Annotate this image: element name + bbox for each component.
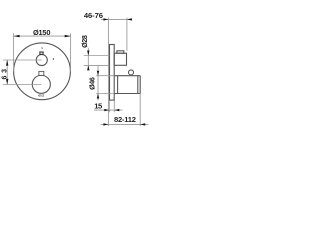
svg-text:6: 6 [1, 76, 8, 80]
front view: escutcheon plate circle Ø150 [14, 43, 71, 100]
63 bottom arrow [6, 79, 8, 85]
dimension 63 line [6, 60, 8, 85]
dimension 46-76 line [101, 18, 132, 20]
side view: lower knob bottom edge [114, 93, 140, 95]
Ø46 bottom arrow [97, 94, 99, 99]
15 right arrow [114, 109, 119, 111]
dimension Ø46 line [97, 66, 99, 101]
finished wall line [107, 18, 109, 127]
svg-text:46-76: 46-76 [84, 11, 103, 20]
svg-text:KEUCO: KEUCO [38, 94, 44, 98]
15 right extension (plate front) [113, 101, 115, 113]
dimension Ø28 line [87, 48, 89, 71]
46-76 right extension (upper knob front) [126, 18, 128, 51]
upper knob (diverter) circle [36, 55, 47, 66]
Ø150 right arrow [65, 35, 71, 37]
svg-text:Ø46: Ø46 [88, 77, 97, 90]
Ø150 left tick + extension line [13, 33, 15, 71]
svg-text:2: 2 [53, 57, 55, 61]
82-112 right extension (knob front) [139, 94, 141, 127]
side view: lower knob top edge [114, 75, 140, 77]
Ø46 bottom tick [96, 93, 114, 95]
Ø28 bottom arrow [87, 65, 89, 70]
Ø46 top arrow [97, 71, 99, 76]
63 top arrow [6, 60, 8, 66]
Ø46 top tick [96, 75, 114, 77]
Ø28 top arrow [87, 51, 89, 56]
side view: lower knob front face [139, 76, 141, 94]
63 extension to lower knob centre [3, 84, 41, 86]
46-76 left arrow [103, 18, 108, 20]
Ø150 right tick + extension line [70, 33, 72, 71]
lower knob grip tab [39, 71, 44, 75]
46-76 right arrow [127, 18, 132, 20]
side view: upper knob body [114, 53, 126, 65]
dimension 82-112 line [101, 123, 149, 125]
svg-text:3: 3 [1, 69, 8, 73]
svg-text:Ø150: Ø150 [33, 28, 50, 37]
svg-text:Ø28: Ø28 [80, 35, 89, 48]
side view: lower knob base ring [117, 76, 119, 94]
Ø28 top tick [84, 55, 110, 57]
Ø150 left arrow [14, 35, 20, 37]
upper knob grip tab [40, 52, 43, 54]
side view: lower knob safety button [129, 70, 134, 75]
svg-text:1: 1 [41, 46, 43, 50]
dimension Ø150 line [14, 35, 71, 37]
side view: upper knob cap (grip tab) [117, 51, 124, 53]
svg-text:82-112: 82-112 [114, 115, 136, 124]
15 left arrow [104, 109, 109, 111]
side view: lower knob front inner ring [137, 76, 139, 94]
lower knob (thermostat) circle [32, 75, 50, 93]
Ø28 bottom tick [84, 64, 110, 66]
82-112 right arrow [140, 123, 145, 125]
15 left extension (plate back) [108, 101, 110, 113]
dimension 15 line [94, 109, 123, 111]
svg-text:15: 15 [94, 102, 103, 111]
82-112 left arrow [103, 123, 108, 125]
side view: escutcheon plate [110, 45, 115, 101]
63 extension to upper knob centre [3, 59, 42, 61]
